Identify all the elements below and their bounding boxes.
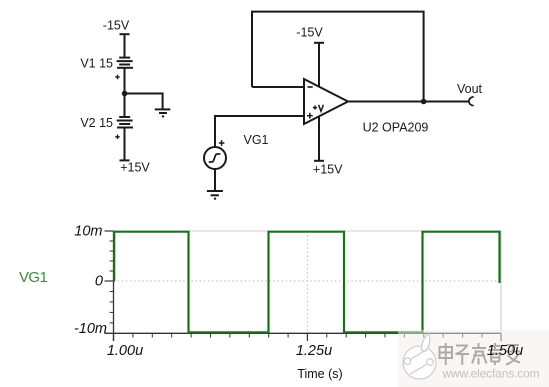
watermark tint xyxy=(398,330,549,387)
wire VG1 to non-inverting input xyxy=(215,116,304,147)
y minor ticks xyxy=(110,241,114,323)
wire xyxy=(124,128,126,161)
char 5 you xyxy=(506,345,521,365)
label Vout xyxy=(457,82,483,96)
char 1 dian xyxy=(440,347,453,358)
minus pin mark xyxy=(308,86,313,88)
x minor ticks xyxy=(133,333,482,337)
watermark logo xyxy=(403,334,436,379)
svg-text:Vout: Vout xyxy=(457,82,483,96)
watermark chinese text (stylized strokes) xyxy=(440,343,521,365)
wire supply bottom xyxy=(318,116,320,161)
char 3 fa xyxy=(478,343,480,348)
label V2 15 xyxy=(80,116,113,130)
plus mark V2 xyxy=(115,135,119,139)
svg-text:+15V: +15V xyxy=(313,163,343,177)
svg-text:U2 OPA209: U2 OPA209 xyxy=(363,121,429,135)
char 4 shao xyxy=(494,343,496,349)
source VG1 circle xyxy=(204,147,226,169)
label +V inside op-amp xyxy=(313,105,324,112)
plus mark V1 xyxy=(115,75,119,79)
output wire xyxy=(348,101,469,103)
gridline 0 dotted xyxy=(114,280,502,282)
x axis xyxy=(105,332,502,334)
svg-text:-10m: -10m xyxy=(74,321,107,337)
label U2 OPA209 xyxy=(363,121,429,135)
label -15V (op-amp supply) xyxy=(296,26,323,40)
label -15V (left supply) xyxy=(103,19,130,33)
terminal bar +15V xyxy=(120,159,130,161)
battery V2 xyxy=(117,117,133,128)
terminal bar op-amp +15V xyxy=(314,160,324,162)
svg-text:1.50u: 1.50u xyxy=(487,343,523,359)
y major ticks xyxy=(105,231,114,281)
waveform VG1 square wave xyxy=(114,232,499,333)
wire to ground xyxy=(125,94,163,109)
label V1 15 xyxy=(80,57,113,71)
label VG1 (schematic) xyxy=(244,133,269,147)
VG1 waveform glyph xyxy=(209,154,221,162)
ground under VG1 xyxy=(207,191,223,199)
svg-text:V1 15: V1 15 xyxy=(80,57,113,71)
svg-text:0: 0 xyxy=(95,274,103,290)
ground (battery mid) xyxy=(155,109,171,116)
svg-text:VG1: VG1 xyxy=(19,269,47,286)
plot right border xyxy=(500,231,502,333)
terminal bar -15V xyxy=(120,33,130,35)
plus pin mark xyxy=(307,113,313,119)
svg-text:Time (s): Time (s) xyxy=(297,367,342,381)
label +15V (op-amp supply) xyxy=(313,163,343,177)
svg-text:www.elecfans.com: www.elecfans.com xyxy=(442,367,540,381)
wire supply top xyxy=(318,43,320,87)
svg-text:1.25u: 1.25u xyxy=(296,343,332,359)
terminal bar op-amp -15V xyxy=(314,42,324,44)
node output dot xyxy=(421,99,427,105)
op-amp U2 triangle xyxy=(304,79,348,124)
svg-text:10m: 10m xyxy=(74,224,102,240)
x axis labels xyxy=(107,343,332,359)
svg-text:+15V: +15V xyxy=(120,161,150,175)
schematic stroke style xyxy=(80,12,482,199)
svg-text:1.00u: 1.00u xyxy=(107,343,143,359)
plot top border (10m line) xyxy=(114,230,502,232)
wire xyxy=(124,68,126,117)
label +15V (left supply) xyxy=(120,161,150,175)
y axis xyxy=(113,231,115,341)
x major ticks xyxy=(114,333,502,341)
svg-text:-15V: -15V xyxy=(103,19,130,33)
wire VG1 to ground xyxy=(214,169,216,191)
svg-text:V2 15: V2 15 xyxy=(80,116,113,130)
svg-text:-15V: -15V xyxy=(296,26,323,40)
svg-text:VG1: VG1 xyxy=(244,133,269,147)
feedback wire top xyxy=(252,12,424,102)
battery V1 xyxy=(117,58,133,68)
char 2 zi xyxy=(456,345,468,347)
wire xyxy=(124,34,126,57)
y axis labels xyxy=(74,224,107,338)
plus mark VG1 xyxy=(219,140,225,146)
node junction xyxy=(122,91,128,97)
Vout terminal arc xyxy=(469,97,474,106)
wire inverting input xyxy=(252,86,304,88)
gridline 1.25u dotted xyxy=(306,231,308,333)
